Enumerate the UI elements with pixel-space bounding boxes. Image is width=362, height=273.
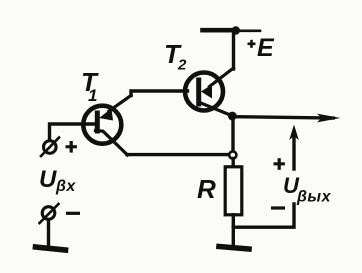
resistor R (225, 167, 242, 215)
ground (input side) (36, 247, 66, 250)
transistor T2 (185, 68, 234, 116)
svg-text:βx: βx (55, 178, 76, 195)
label + (output) (274, 158, 285, 170)
junction dot (rail) (232, 26, 240, 34)
svg-text:1: 1 (88, 86, 97, 105)
svg-text:R: R (197, 174, 216, 204)
svg-text:βыx: βыx (296, 189, 332, 206)
wire T1 collector horizontal (127, 153, 230, 156)
power rail +E (203, 28, 237, 33)
label Uвх (39, 166, 76, 195)
terminal input + (41, 138, 59, 157)
wire ring to resistor (231, 159, 234, 168)
wire T1 emitter to T2 base (131, 91, 188, 96)
junction dot (collector node) (228, 112, 237, 121)
output wire with arrow (233, 117, 333, 118)
transistor T1 (83, 96, 131, 156)
svg-text:E: E (257, 34, 275, 62)
wire input-bottom to ground (47, 220, 50, 246)
svg-text:U: U (39, 166, 57, 193)
terminal input − (40, 204, 59, 223)
label − (input) (66, 212, 80, 215)
ground (resistor side) (219, 247, 249, 250)
junction ring (229, 151, 236, 158)
wire bottom branch to Uвых minus (233, 204, 294, 227)
svg-text:2: 2 (177, 57, 187, 74)
wire resistor bottom to ground (232, 215, 235, 246)
label + (input) (66, 141, 77, 153)
arrow Uвых (up) (292, 134, 295, 169)
wire T2 emitter to +E rail (232, 31, 235, 69)
wire collector node down to ring (231, 116, 234, 152)
label T1 (81, 67, 99, 105)
wire input-top to T1 base (50, 124, 97, 140)
label Uвых (283, 173, 332, 206)
label +E (248, 34, 276, 62)
label − (output) (271, 206, 285, 209)
label T2 (164, 39, 187, 74)
